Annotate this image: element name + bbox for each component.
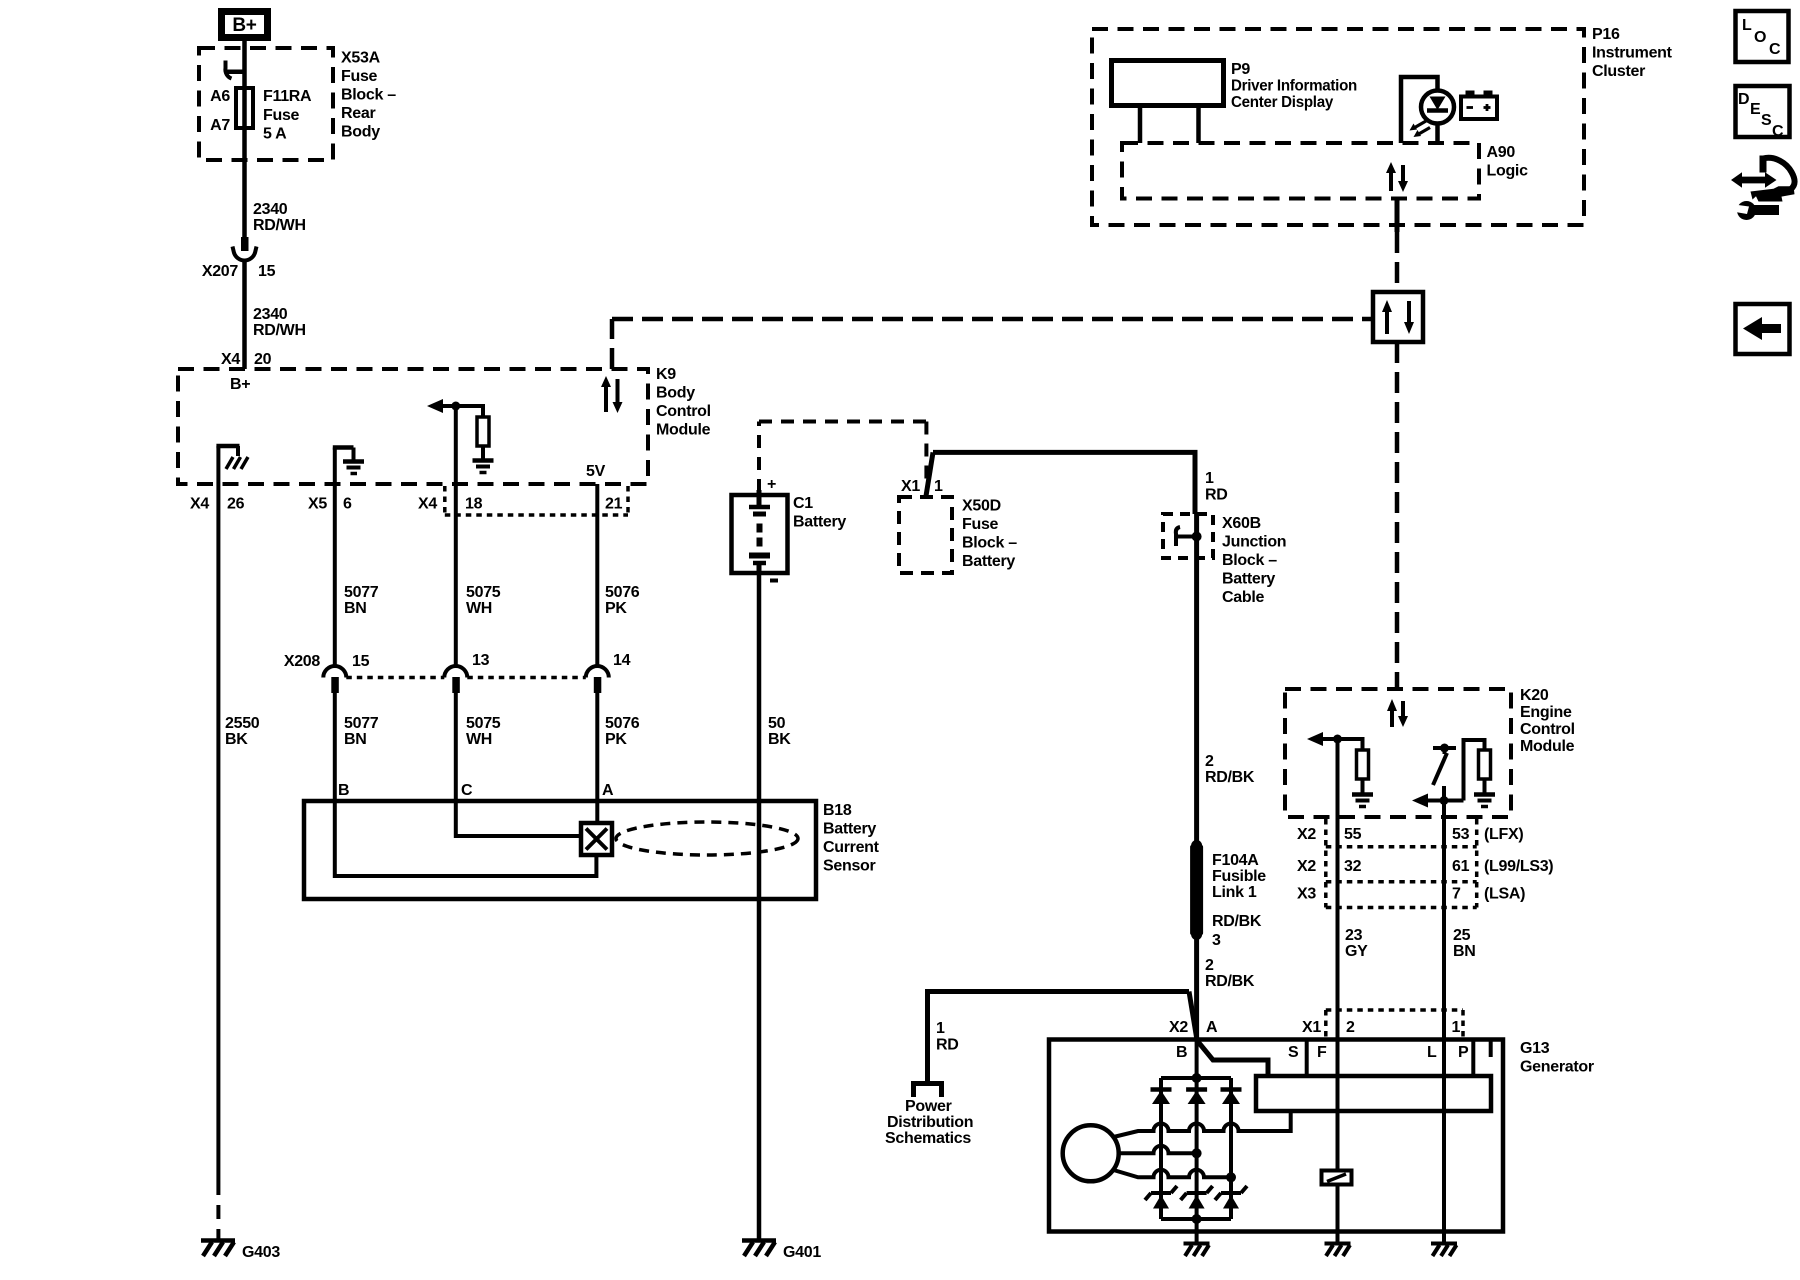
svg-text:Block –: Block – <box>1222 552 1277 569</box>
svg-text:2340: 2340 <box>253 306 288 323</box>
rectifier top diode 3 <box>1221 1090 1242 1105</box>
wire X207 to K9, circuit 2340 RD/WH <box>242 262 247 369</box>
svg-text:F104A: F104A <box>1212 852 1259 869</box>
icon box DESC <box>1736 86 1790 140</box>
svg-text:C: C <box>1769 41 1781 58</box>
rectifier bridge branch wires <box>1161 1078 1231 1219</box>
wire X60B through junction <box>1194 514 1199 558</box>
svg-text:25: 25 <box>1453 927 1471 944</box>
stator phase lead 3 <box>1114 1170 1232 1178</box>
engine control module K20 dashed box <box>1285 689 1511 817</box>
svg-text:Schematics: Schematics <box>885 1130 971 1147</box>
connector X208 pin 15 <box>284 653 370 693</box>
chassis ground below generator (F) <box>1325 1244 1351 1257</box>
svg-text:14: 14 <box>613 652 631 669</box>
serial data arrows in K9 <box>601 376 623 413</box>
generator G13 box <box>1049 1040 1503 1232</box>
svg-text:2550: 2550 <box>225 715 260 732</box>
svg-text:C1: C1 <box>793 495 813 512</box>
F wire to ground <box>1336 1185 1340 1244</box>
wire label 50 BK <box>768 715 791 748</box>
wire 5075 WH from K9 pin X4 18 <box>454 484 458 666</box>
svg-text:X60B: X60B <box>1222 515 1261 532</box>
rectifier bottom avalanche diode 1 <box>1145 1186 1177 1209</box>
connector X208 pin 13 <box>444 652 489 693</box>
svg-text:G403: G403 <box>242 1244 280 1261</box>
svg-text:Battery: Battery <box>793 514 846 531</box>
svg-text:Fuse: Fuse <box>341 68 378 85</box>
slanted lead from X50D pin 1 to main feed <box>926 452 933 496</box>
junction block battery cable X60B dashed box <box>1163 514 1213 558</box>
svg-text:Fuse: Fuse <box>962 516 999 533</box>
svg-text:A7: A7 <box>210 117 230 134</box>
svg-text:A: A <box>1206 1019 1218 1036</box>
connector X208 pin 14 <box>586 652 631 693</box>
wire label 5076 PK <box>605 715 640 748</box>
svg-text:+: + <box>767 476 776 493</box>
svg-text:E: E <box>1750 101 1761 118</box>
svg-text:13: 13 <box>472 652 490 669</box>
svg-text:5075: 5075 <box>466 584 501 601</box>
battery current sensor B18 box <box>304 801 816 899</box>
svg-text:1: 1 <box>934 478 943 495</box>
label G13 Generator <box>1520 1040 1594 1076</box>
svg-text:Fuse: Fuse <box>263 107 300 124</box>
svg-text:X4: X4 <box>190 496 209 513</box>
svg-text:Block –: Block – <box>962 535 1017 552</box>
junction dot on rectifier top bus <box>1192 1073 1202 1083</box>
driver information center display P9 <box>1112 61 1358 112</box>
svg-text:Instrument: Instrument <box>1592 45 1673 62</box>
wire label 25 BN <box>1453 927 1476 960</box>
charge indicator LED wiring <box>1401 77 1438 143</box>
label X50D Fuse Block - Battery <box>962 498 1017 571</box>
svg-text:15: 15 <box>352 653 370 670</box>
svg-text:5077: 5077 <box>344 584 379 601</box>
connector X207 pin 15 <box>202 237 276 280</box>
svg-text:D: D <box>1738 91 1749 108</box>
dashed sensing loop ellipse <box>616 822 798 855</box>
label K9 Body Control Module <box>656 366 711 439</box>
svg-text:PK: PK <box>605 600 627 617</box>
label X53A Fuse Block - Rear Body <box>341 50 396 141</box>
LED light arrows <box>1410 121 1431 137</box>
junction dot pin 55 branch <box>1333 735 1342 744</box>
battery telltale icon <box>1461 91 1497 120</box>
svg-text:5 A: 5 A <box>263 126 287 143</box>
wire 5077 BN from K9 pin X5 6 <box>333 484 337 666</box>
junction dot pin18/resistor <box>451 402 460 411</box>
dashed wire battery positive to X50D <box>759 422 926 493</box>
F pin wire through regulator <box>1336 1040 1340 1171</box>
junction dot phase 2 <box>1192 1148 1202 1158</box>
K9 pin labels X4 26, X5 6, X4 18, 21 <box>190 496 623 513</box>
label K20 Engine Control Module <box>1520 687 1575 755</box>
svg-text:(LFX): (LFX) <box>1484 826 1523 843</box>
wire label 5076 PK <box>605 584 640 617</box>
svg-text:X5: X5 <box>308 496 327 513</box>
svg-text:Control: Control <box>656 403 711 420</box>
indicator LED <box>1421 91 1454 124</box>
fuse block X53A dashed box <box>199 48 333 160</box>
resistor in K20 left <box>1357 750 1369 779</box>
voltage regulator box <box>1256 1076 1491 1111</box>
wire label 2340 RD/WH <box>253 201 306 234</box>
svg-text:(LSA): (LSA) <box>1484 886 1525 903</box>
svg-text:15: 15 <box>258 263 276 280</box>
label X60B Junction Block - Battery Cable <box>1222 515 1286 606</box>
wire label 2550 BK <box>225 715 260 748</box>
L pin wire through generator to ground <box>1442 1040 1446 1244</box>
svg-text:BN: BN <box>344 600 367 617</box>
wire 5077 BN to sensor <box>333 693 337 801</box>
switch and resistor in K20 (pin 53) <box>1423 740 1485 817</box>
wire 2 RD/BK fusible link to generator <box>1194 934 1199 1041</box>
svg-text:Module: Module <box>1520 738 1575 755</box>
svg-text:Battery: Battery <box>1222 571 1275 588</box>
ground G401 <box>742 1241 821 1262</box>
svg-text:X208: X208 <box>284 653 321 670</box>
svg-text:O: O <box>1754 29 1766 46</box>
B+ power symbol box <box>222 12 268 38</box>
logic module A90 dashed box <box>1122 143 1479 199</box>
svg-text:53: 53 <box>1452 826 1470 843</box>
connector X208 dotted link line <box>346 676 586 680</box>
svg-text:Distribution: Distribution <box>887 1114 973 1131</box>
internal wiring of B18 <box>335 801 598 876</box>
pin X4 20 <box>221 351 272 368</box>
earth ground below K20 left resistor <box>1352 779 1373 807</box>
B pin wire to rectifier bus <box>1195 1040 1199 1078</box>
svg-text:X4: X4 <box>418 496 437 513</box>
svg-text:18: 18 <box>465 496 483 513</box>
serial data dashed wire splice box to K20 <box>1395 342 1400 689</box>
stator phase lead 1 <box>1114 1111 1291 1137</box>
svg-text:Rear: Rear <box>341 105 375 122</box>
slant joining branch to main feed <box>1189 992 1197 1041</box>
svg-text:A90: A90 <box>1487 144 1516 161</box>
chassis ground inside K9 (pin X4 26) <box>216 446 248 484</box>
svg-text:Module: Module <box>656 422 711 439</box>
icon electrical repair (arrows and wrench) <box>1731 156 1795 221</box>
svg-text:X2: X2 <box>1169 1019 1188 1036</box>
label Power Distribution Schematics <box>885 1098 973 1147</box>
svg-text:20: 20 <box>254 351 272 368</box>
svg-text:X4: X4 <box>221 351 240 368</box>
svg-text:B+: B+ <box>230 376 250 393</box>
wire label 5075 WH <box>466 584 501 617</box>
svg-text:F11RA: F11RA <box>263 88 312 105</box>
rectifier ground wire <box>1195 1219 1199 1243</box>
label B18 Battery Current Sensor <box>823 802 880 875</box>
main battery feed wire 1 RD <box>933 452 1195 514</box>
wire 5076 PK from K9 pin 21 <box>595 484 599 666</box>
off-page connector to power distribution <box>914 1084 942 1098</box>
wire label 5077 BN <box>344 715 379 748</box>
field indicator element (box with slash) on F wire <box>1322 1171 1352 1185</box>
wire B+ to fuse block <box>242 39 247 238</box>
K20 pin labels row 2: X2 32 / 61 (L99/LS3) <box>1297 858 1553 875</box>
svg-text:BN: BN <box>1453 943 1476 960</box>
svg-text:RD/WH: RD/WH <box>253 322 306 339</box>
svg-text:Driver Information: Driver Information <box>1231 78 1357 95</box>
wire label 23 GY <box>1345 927 1368 960</box>
dotted option box below K9 pins 18 and 21 <box>445 486 628 515</box>
svg-text:5076: 5076 <box>605 715 640 732</box>
P9 legs to A90 <box>1138 106 1143 144</box>
svg-text:23: 23 <box>1345 927 1363 944</box>
svg-text:P16: P16 <box>1592 26 1620 43</box>
svg-text:Battery: Battery <box>823 821 876 838</box>
svg-text:Current: Current <box>823 839 880 856</box>
svg-text:RD/WH: RD/WH <box>253 217 306 234</box>
wire label 5075 WH <box>466 715 501 748</box>
chassis ground below generator (L) <box>1431 1244 1457 1257</box>
svg-text:X2: X2 <box>1297 826 1316 843</box>
svg-text:K9: K9 <box>656 366 676 383</box>
svg-text:RD/BK: RD/BK <box>1212 913 1262 930</box>
fuse F11RA 5A <box>236 88 312 143</box>
ground G403 <box>201 1241 280 1262</box>
svg-text:G13: G13 <box>1520 1040 1550 1057</box>
svg-text:55: 55 <box>1344 826 1362 843</box>
svg-text:K20: K20 <box>1520 687 1549 704</box>
junction dot pin 53 branch <box>1440 796 1449 805</box>
icon box LOC <box>1736 11 1789 62</box>
resistor in K20 right <box>1479 750 1491 779</box>
svg-text:X53A: X53A <box>341 50 381 67</box>
svg-text:X50D: X50D <box>962 498 1001 515</box>
battery C1 <box>732 476 847 581</box>
svg-text:S: S <box>1761 112 1772 129</box>
rectifier top diode 1 <box>1151 1090 1172 1105</box>
chassis ground below generator (B) <box>1184 1244 1210 1257</box>
switch contact dot <box>1440 744 1449 753</box>
svg-text:Center Display: Center Display <box>1231 94 1333 111</box>
signal arrow and resistor inside K9 (pin X4 18) <box>438 404 483 484</box>
stator winding circle <box>1063 1125 1119 1181</box>
svg-text:BK: BK <box>225 731 248 748</box>
svg-text:BK: BK <box>768 731 791 748</box>
junction dot X60B <box>1192 532 1202 542</box>
svg-text:P9: P9 <box>1231 61 1250 78</box>
svg-text:Fusible: Fusible <box>1212 868 1266 885</box>
svg-text:RD/BK: RD/BK <box>1205 769 1255 786</box>
svg-text:PK: PK <box>605 731 627 748</box>
wire 2 RD/BK down to fusible link <box>1194 558 1199 845</box>
svg-text:Control: Control <box>1520 721 1575 738</box>
earth ground below K9 resistor <box>473 446 494 473</box>
generator pin labels B S F L P <box>1176 1044 1469 1061</box>
wire label 2 RD/BK <box>1205 957 1255 990</box>
serial data stub below A90 <box>1395 199 1400 233</box>
serial data dashed wire to splice box <box>1395 232 1400 292</box>
svg-text:5075: 5075 <box>466 715 501 732</box>
signal arrow and resistor in K20 (pin 55) <box>1318 737 1363 817</box>
earth ground inside K9 (pin X5 6) <box>333 448 364 485</box>
svg-text:B: B <box>338 782 349 799</box>
svg-text:G401: G401 <box>783 1244 821 1261</box>
svg-text:Sensor: Sensor <box>823 858 876 875</box>
svg-text:C: C <box>1772 123 1784 140</box>
wire label 2 RD/BK <box>1205 753 1255 786</box>
serial data arrows in A90 <box>1386 162 1408 192</box>
wire label 5077 BN <box>344 584 379 617</box>
svg-text:L: L <box>1742 17 1752 34</box>
svg-text:B: B <box>1176 1044 1187 1061</box>
svg-text:50: 50 <box>768 715 786 732</box>
svg-text:F: F <box>1317 1044 1327 1061</box>
svg-text:Body: Body <box>341 124 380 141</box>
svg-text:3: 3 <box>1212 932 1221 949</box>
svg-text:P: P <box>1458 1044 1469 1061</box>
wire 2550 BK from K9 pin X4 26 <box>216 484 220 1181</box>
svg-text:Battery: Battery <box>962 553 1015 570</box>
svg-text:Junction: Junction <box>1222 534 1286 551</box>
svg-text:RD/BK: RD/BK <box>1205 973 1255 990</box>
wire label 2340 RD/WH <box>253 306 306 339</box>
svg-text:B18: B18 <box>823 802 852 819</box>
instrument cluster P16 dashed box <box>1092 29 1584 225</box>
svg-text:WH: WH <box>466 600 492 617</box>
svg-text:5V: 5V <box>586 463 606 480</box>
wire 25 BN from K20 pin 53 to generator <box>1442 817 1446 1041</box>
rectifier bottom avalanche diode 2 <box>1181 1186 1213 1209</box>
K20 connector dotted option box <box>1326 819 1477 908</box>
svg-text:(L99/LS3): (L99/LS3) <box>1484 858 1553 875</box>
svg-text:C: C <box>461 782 473 799</box>
svg-text:X3: X3 <box>1297 886 1316 903</box>
svg-text:5077: 5077 <box>344 715 379 732</box>
label A90 Logic <box>1487 144 1529 180</box>
svg-text:X207: X207 <box>202 263 239 280</box>
serial data splice box <box>1373 292 1423 342</box>
earth ground below K20 right resistor <box>1474 779 1495 807</box>
B pin internal wire to regulator <box>1197 1040 1268 1076</box>
pin X1 1 <box>901 478 943 495</box>
svg-text:A: A <box>602 782 614 799</box>
svg-text:Cable: Cable <box>1222 589 1264 606</box>
svg-text:Body: Body <box>656 385 695 402</box>
K20 pin labels row 1: X2 55 / 53 (LFX) <box>1297 826 1523 843</box>
svg-text:26: 26 <box>227 496 245 513</box>
svg-text:1: 1 <box>1452 1019 1461 1036</box>
svg-text:1: 1 <box>936 1020 945 1037</box>
svg-text:2: 2 <box>1346 1019 1355 1036</box>
fusible link F104A <box>1190 840 1266 949</box>
svg-text:Logic: Logic <box>1487 163 1529 180</box>
signal arrow K20 right <box>1412 794 1428 808</box>
P pin wire to regulator <box>1471 1040 1475 1077</box>
wire label 1 RD <box>1205 470 1228 504</box>
generator connector dotted box pins X1 2 / 1 <box>1326 1010 1463 1039</box>
wire 50 BK battery negative to G401 <box>757 573 762 1240</box>
resistor in K9 <box>477 417 489 446</box>
wire 23 GY from K20 pin 55 to generator <box>1336 817 1340 1041</box>
svg-text:2: 2 <box>1205 753 1214 770</box>
svg-text:Block –: Block – <box>341 87 396 104</box>
svg-text:BN: BN <box>344 731 367 748</box>
svg-text:5076: 5076 <box>605 584 640 601</box>
svg-text:32: 32 <box>1344 858 1362 875</box>
svg-text:WH: WH <box>466 731 492 748</box>
svg-text:X1: X1 <box>901 478 920 495</box>
wire label 1 RD <box>936 1020 959 1054</box>
wire 5075 WH to sensor <box>454 693 458 801</box>
branch wire 1 RD to power distribution <box>928 992 1190 1082</box>
svg-text:2340: 2340 <box>253 201 288 218</box>
S pin wire to regulator <box>1305 1040 1309 1077</box>
stator phase lead 2 <box>1119 1146 1197 1154</box>
pin labels X1 2 / 1 <box>1302 1019 1461 1036</box>
svg-text:2: 2 <box>1205 957 1214 974</box>
svg-text:Power: Power <box>905 1098 952 1115</box>
svg-text:S: S <box>1288 1044 1299 1061</box>
serial data arrows in K20 <box>1387 699 1408 727</box>
eyelet terminal inside X60B <box>1176 527 1197 546</box>
svg-text:RD: RD <box>936 1037 959 1054</box>
svg-text:6: 6 <box>343 496 352 513</box>
svg-text:X1: X1 <box>1302 1019 1321 1036</box>
junction dot bottom bus <box>1192 1214 1202 1224</box>
connector terminal hook A6 <box>225 61 244 79</box>
svg-text:Engine: Engine <box>1520 704 1572 721</box>
svg-text:Link 1: Link 1 <box>1212 884 1257 901</box>
hall sensor element box with X <box>581 823 612 855</box>
svg-text:1: 1 <box>1205 470 1214 487</box>
svg-text:7: 7 <box>1452 886 1461 903</box>
dashed wire to G403 <box>216 1181 220 1240</box>
rectifier top diode 2 <box>1186 1090 1207 1105</box>
svg-text:A6: A6 <box>210 88 230 105</box>
rectifier bottom avalanche diode 3 <box>1215 1186 1247 1209</box>
svg-text:X2: X2 <box>1297 858 1316 875</box>
body control module K9 dashed box <box>178 369 648 484</box>
wire 5076 PK to sensor <box>595 693 599 801</box>
svg-text:B+: B+ <box>232 15 256 36</box>
svg-text:Cluster: Cluster <box>1592 63 1645 80</box>
pin separator tick right of P <box>1489 1040 1493 1058</box>
svg-text:Generator: Generator <box>1520 1059 1594 1076</box>
junction dot phase 3 <box>1226 1172 1236 1182</box>
icon box back arrow <box>1736 304 1790 354</box>
label P16 Instrument Cluster <box>1592 26 1673 80</box>
fuse block battery X50D dashed box <box>899 497 952 573</box>
svg-text:GY: GY <box>1345 943 1368 960</box>
K20 pin labels row 3: X3 / 7 (LSA) <box>1297 886 1525 903</box>
svg-text:61: 61 <box>1452 858 1470 875</box>
svg-text:21: 21 <box>605 496 623 513</box>
svg-text:L: L <box>1427 1044 1437 1061</box>
pin labels X2 A <box>1169 1019 1218 1036</box>
serial data dashed line from K9 to splice box <box>612 319 1373 369</box>
svg-text:RD: RD <box>1205 487 1228 504</box>
